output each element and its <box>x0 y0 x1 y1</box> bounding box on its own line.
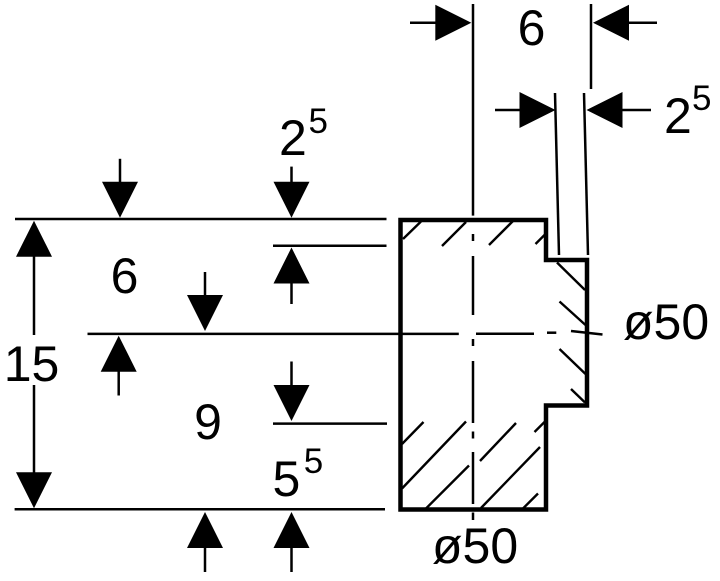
svg-text:6: 6 <box>111 248 139 304</box>
svg-text:15: 15 <box>4 336 60 392</box>
svg-text:ø50: ø50 <box>623 294 709 350</box>
svg-text:5: 5 <box>692 79 711 118</box>
svg-text:9: 9 <box>194 394 222 450</box>
svg-text:ø50: ø50 <box>432 518 518 574</box>
svg-text:5: 5 <box>304 442 323 481</box>
svg-text:5: 5 <box>273 451 301 507</box>
svg-text:6: 6 <box>518 0 546 56</box>
svg-text:2: 2 <box>279 110 307 166</box>
svg-text:2: 2 <box>664 88 692 144</box>
svg-text:5: 5 <box>309 102 328 141</box>
